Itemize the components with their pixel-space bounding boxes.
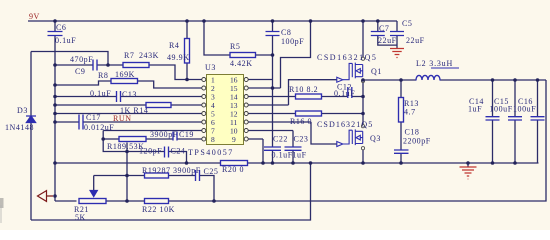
wire pin9 row — [247, 138, 263, 140]
svg-text:1uF: 1uF — [468, 105, 482, 114]
wire R4 top lead — [186, 21, 188, 39]
svg-text:U3: U3 — [205, 63, 216, 72]
svg-text:9: 9 — [232, 135, 236, 144]
wire D3 bottom to bottom return — [30, 123, 32, 221]
svg-text:0.1uF: 0.1uF — [90, 89, 111, 98]
wire C6 bottom lead / SGND bus — [54, 36, 56, 196]
resistor R19 — [145, 173, 169, 178]
svg-text:C22: C22 — [273, 135, 288, 144]
wire R22 right / FB sense line to output riser — [169, 80, 547, 201]
wire pin14 row to R10 — [247, 96, 296, 98]
wire C15 bottom stub — [514, 120, 516, 163]
resistor R5 — [230, 53, 256, 58]
wire R5 feed from rail — [204, 21, 230, 55]
wire C25 right drop to R22 row — [200, 176, 215, 202]
wire pin13 row — [247, 104, 289, 106]
gate arrows and MOSFETs — [337, 57, 365, 150]
wire pin15 row — [247, 87, 281, 89]
wire D3 branch vertical — [30, 52, 32, 117]
svg-text:49.9K: 49.9K — [167, 53, 190, 62]
wire R14 row: bus to R14 — [55, 104, 146, 106]
svg-text:0.1uF: 0.1uF — [334, 89, 355, 98]
wire Q3 source to ground rail — [362, 150, 364, 163]
capacitor C25 — [196, 170, 200, 181]
junction (272.5,88) — [271, 86, 275, 90]
wire C8 bottom / ILIM vertical to C22 — [272, 36, 274, 148]
wire ground flag stem — [467, 163, 469, 167]
wire R8 right to pin2 — [138, 81, 203, 88]
capacitor C7 — [371, 32, 385, 36]
junction (187,21) — [185, 19, 189, 23]
svg-text:D3: D3 — [17, 106, 28, 115]
svg-text:R5: R5 — [230, 42, 240, 51]
svg-text:Q1: Q1 — [371, 67, 382, 76]
capacitor C24 — [165, 147, 169, 158]
junction (127,175.5) — [125, 174, 129, 178]
svg-text:R20 0: R20 0 — [222, 165, 244, 174]
wire bottom ground return — [31, 163, 311, 220]
svg-text:R22 10K: R22 10K — [142, 205, 175, 214]
wire pin11 row — [247, 121, 311, 123]
transistor Q3 source pad — [361, 147, 364, 150]
junction (363,163) — [361, 161, 365, 165]
wire C24 right drop to ground rail — [169, 152, 187, 164]
wire R10 to C12 — [322, 96, 348, 98]
wire C13 row: bus to C13 — [55, 96, 117, 98]
wire C22 bottom stub — [272, 150, 274, 163]
capacitor C9 — [93, 60, 97, 71]
junction (363,113.5) — [361, 112, 365, 116]
svg-text:C24: C24 — [171, 147, 186, 156]
transistor Q3 body arrow — [356, 135, 360, 140]
junction (55,163) — [53, 161, 57, 165]
power arrow (FB, maroon) — [38, 191, 54, 202]
wire VIN jog from rail to pin15 — [281, 21, 311, 88]
wire pin12 row to R16 — [247, 113, 296, 115]
resistor R22 — [145, 199, 169, 204]
capacitor C13 — [117, 91, 121, 102]
wire C8 top lead — [272, 21, 274, 32]
svg-text:243K: 243K — [139, 51, 159, 60]
wire R19 to C25 — [169, 175, 196, 177]
junction (293,163) — [291, 161, 295, 165]
wire R14 right to pin4 — [171, 104, 202, 106]
wire BP10 drop to C23 — [292, 131, 294, 148]
wire 9V top rail — [28, 20, 397, 22]
capacitor C14 — [486, 117, 500, 120]
wire C17 right to pin6 — [83, 121, 202, 123]
wire R21 wiper drop — [93, 176, 95, 191]
transistor Q3 gate bar — [351, 130, 353, 144]
transistor Q3 drain pad — [361, 125, 364, 128]
wire ground rail right of R20 — [248, 162, 539, 164]
svg-text:22uF: 22uF — [406, 36, 425, 45]
svg-text:120pF: 120pF — [139, 147, 162, 156]
junction (310.5,163) — [309, 161, 313, 165]
junction (515,80) — [513, 78, 517, 82]
resistor R7 — [123, 63, 149, 68]
svg-text:100pF: 100pF — [281, 37, 304, 46]
junction (214,201) — [212, 199, 216, 203]
wire pin7 row — [103, 130, 202, 132]
junction (401,80) — [399, 78, 403, 82]
wire HDRV jog up to Q1 gate — [289, 80, 337, 105]
wire R7 right to pin1 — [149, 65, 202, 80]
junction (468,163) — [466, 161, 470, 165]
svg-text:100uF: 100uF — [490, 105, 513, 114]
wire pin5 row: bus to pin5 — [55, 113, 202, 115]
junction (492.5,80) — [491, 78, 495, 82]
junction (55,105) — [53, 103, 57, 107]
svg-text:8: 8 — [211, 135, 215, 144]
wire C12 to SW vertical — [352, 96, 363, 98]
label L2 underline — [431, 67, 459, 69]
junction (108,65) — [106, 63, 110, 67]
wire comp junction vertical V1 — [102, 131, 104, 140]
svg-text:L2 3.3uH: L2 3.3uH — [416, 59, 453, 68]
wire C13 to pin3 — [121, 96, 203, 98]
svg-text:C18: C18 — [405, 128, 420, 137]
wire C16 bottom stub — [537, 120, 539, 163]
svg-text:R10 8.2: R10 8.2 — [289, 85, 318, 94]
wire SW row to L2 — [363, 79, 416, 81]
wire R8 row: bus to R8 — [55, 81, 111, 85]
junction (55,65) — [53, 63, 57, 67]
junction (363,21) — [361, 19, 365, 23]
svg-text:0.1uF: 0.1uF — [55, 36, 76, 45]
junction (55,96.5) — [53, 95, 57, 99]
wire C14 top lead — [492, 80, 494, 117]
capacitor C23 — [285, 147, 302, 150]
svg-text:9V: 9V — [29, 12, 40, 21]
wire Q1 drain vertical from rail — [362, 21, 364, 57]
capacitor C15 — [508, 117, 522, 120]
junction (204,21) — [202, 19, 206, 23]
resistor R18 — [119, 137, 146, 142]
wire C15 top lead — [514, 80, 516, 117]
svg-text:CSD16321Q5: CSD16321Q5 — [317, 53, 377, 62]
svg-text:C25: C25 — [204, 167, 219, 176]
svg-text:R19287: R19287 — [142, 166, 171, 175]
IC U3 pin numbers — [211, 76, 238, 145]
junction (492.5,163) — [491, 161, 495, 165]
transistor Q1 gate bar — [351, 63, 353, 77]
svg-text:1uF: 1uF — [293, 151, 307, 160]
svg-text:470pF: 470pF — [70, 55, 93, 64]
svg-text:C5: C5 — [402, 19, 412, 28]
wire FB vertical V2 — [126, 143, 128, 202]
svg-text:169K: 169K — [115, 70, 135, 79]
svg-text:Q3: Q3 — [370, 134, 381, 143]
ground symbol (output, red) — [460, 167, 477, 179]
transistor Q1 gate lead jog — [343, 63, 353, 79]
svg-text:22uF: 22uF — [378, 36, 397, 45]
svg-text:C13: C13 — [122, 90, 137, 99]
transistor Q1 source pad — [361, 79, 364, 82]
wire C14 bottom stub — [492, 120, 494, 163]
wire pin8 row: V1 to R18 — [103, 138, 119, 140]
svg-text:R8: R8 — [98, 71, 108, 80]
junction (187,79.5) — [185, 78, 189, 82]
wire R13 bottom to C18 — [400, 122, 402, 150]
wire C9 row: bus to C9 — [55, 64, 93, 66]
svg-text:5K: 5K — [75, 213, 86, 222]
wire C7 bottom to C5 bottom — [378, 36, 397, 46]
capacitor C6 — [48, 32, 63, 36]
junction (515,163) — [513, 161, 517, 165]
capacitor C18 — [394, 150, 409, 153]
junction (401,163) — [399, 161, 403, 165]
junction (55,21) — [53, 19, 57, 23]
wire L2 to output rail — [440, 79, 546, 81]
wire V1 down to C24 row — [103, 139, 164, 152]
svg-text:4.42K: 4.42K — [230, 59, 253, 68]
resistor R16 — [296, 111, 322, 116]
wire C17 row: bus to C17 — [55, 121, 79, 123]
capacitor C19 — [173, 132, 177, 141]
transistor Q1 channel bar — [354, 63, 356, 79]
wire R5 right to C8 junction — [256, 54, 273, 56]
ground symbol (input, red) — [390, 49, 404, 58]
capacitor C8 — [266, 32, 280, 36]
wire LDRV drop to Q3 gate — [311, 122, 337, 144]
junction (272.5,21) — [271, 19, 275, 23]
wire C6 top lead — [54, 21, 56, 31]
junction (377.8,21) — [376, 19, 380, 23]
resistor R8 — [111, 79, 138, 84]
svg-text:C23: C23 — [294, 135, 309, 144]
svg-text:CSD16321Q5: CSD16321Q5 — [317, 120, 373, 129]
potentiometer R21 body — [79, 199, 106, 204]
junction (186.5,163) — [185, 161, 189, 165]
wire C5 top from rail corner — [396, 21, 398, 32]
junction (363,80) — [361, 78, 365, 82]
resistor R20 — [221, 161, 248, 166]
capacitor C22 — [264, 147, 281, 150]
wire R21 to R22 — [107, 200, 145, 202]
wire C18 bottom stub — [400, 153, 402, 163]
junction (55,85) — [53, 83, 57, 87]
junction (55,196) — [53, 194, 57, 198]
inductor L2 — [416, 75, 440, 80]
wire R18 right to C19 — [146, 138, 173, 140]
capacitor C5 — [390, 32, 404, 36]
wire R19 row: wiper corner to R19 — [94, 175, 145, 177]
IC U3 TPS40057 body — [207, 75, 244, 145]
svg-text:R4: R4 — [169, 41, 179, 50]
resistor R14 — [146, 103, 171, 108]
junction (537.5,80) — [536, 78, 540, 82]
capacitor C17 — [79, 115, 83, 130]
svg-text:C17: C17 — [86, 113, 101, 122]
transistor Q1 drain and source stubs — [355, 65, 362, 77]
scan artifact left edge — [0, 198, 4, 208]
transistor Q3 gate lead jog — [343, 130, 353, 144]
transistor Q1 drain pad — [361, 57, 364, 60]
wire C23 bottom stub — [292, 150, 294, 163]
transistor Q1 body arrow — [356, 69, 360, 74]
svg-text:C19: C19 — [179, 130, 194, 139]
wire C19 right to pin8 — [177, 138, 202, 140]
IC U3 pin circles — [202, 78, 248, 142]
svg-text:RUN: RUN — [113, 114, 132, 123]
svg-text:100uF: 100uF — [513, 105, 536, 114]
wire pin10 row — [247, 130, 293, 132]
diode D3 — [26, 116, 36, 123]
wire pin16 row — [202, 79, 273, 81]
transistor Q1 gate arrow — [337, 77, 343, 82]
svg-text:3900pF: 3900pF — [173, 166, 201, 175]
capacitor C16 — [531, 117, 545, 120]
wire R4 bottom lead to pin1 row — [186, 63, 188, 80]
wire C9 to R7 — [97, 64, 123, 66]
svg-text:R16 0: R16 0 — [290, 117, 312, 126]
wire R16 right to SW vertical — [322, 113, 364, 115]
junction (272.5,55) — [271, 53, 275, 57]
wire C7 feed — [377, 21, 379, 32]
resistor R10 — [296, 94, 322, 99]
transistor Q3 gate arrow — [337, 142, 343, 147]
junction (363,96.5) — [361, 95, 365, 99]
svg-text:C8: C8 — [281, 28, 291, 37]
svg-text:R7: R7 — [124, 51, 134, 60]
transistor Q3 channel bar — [354, 129, 356, 145]
resistor R4 — [185, 39, 190, 64]
svg-text:TPS40057: TPS40057 — [188, 148, 234, 157]
junction (263,163) — [261, 161, 265, 165]
svg-text:C7: C7 — [379, 24, 389, 33]
wire FB row: arrow junction to R21 — [55, 196, 77, 201]
transistor Q3 drain and source stubs — [355, 131, 362, 143]
wire PGND drop — [262, 139, 264, 163]
wire C5 bottom stub to ground — [396, 36, 398, 49]
potentiometer R21 wiper arrow — [90, 191, 97, 197]
resistor R13 — [399, 98, 404, 123]
svg-text:0.012uF: 0.012uF — [84, 123, 114, 132]
svg-text:2200pF: 2200pF — [403, 137, 431, 146]
wire KFF node: D3 top jog to C9/R7 row — [31, 52, 108, 66]
junction (310.5,21) — [309, 19, 313, 23]
junction (103.2,139) — [101, 137, 105, 141]
capacitor C12 — [348, 87, 352, 98]
junction (127,151.5) — [125, 150, 129, 154]
junction (272.5,163) — [271, 161, 275, 165]
svg-text:C9: C9 — [75, 67, 85, 76]
junction (55,113.5) — [53, 112, 57, 116]
junction (127,201) — [125, 199, 129, 203]
junction (55,122) — [53, 120, 57, 124]
svg-text:3900pF: 3900pF — [150, 130, 178, 139]
wire ground rail — [55, 162, 221, 164]
svg-text:C6: C6 — [56, 23, 66, 32]
svg-text:0.1uF: 0.1uF — [272, 151, 293, 160]
svg-text:4.7: 4.7 — [404, 108, 416, 117]
svg-text:1N4148: 1N4148 — [5, 123, 34, 132]
wire SW vertical Q1 source to Q3 drain — [362, 83, 364, 125]
wire C16 top lead — [537, 80, 539, 117]
wire R13 top lead — [400, 80, 402, 98]
